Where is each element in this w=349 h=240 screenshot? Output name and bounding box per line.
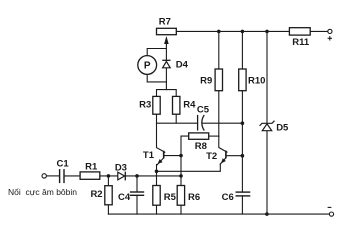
svg-text:R5: R5 xyxy=(164,192,177,203)
svg-text:D5: D5 xyxy=(276,122,289,133)
svg-text:C1: C1 xyxy=(57,158,70,169)
svg-text:R10: R10 xyxy=(248,76,265,87)
svg-text:C4: C4 xyxy=(118,192,131,203)
svg-text:R2: R2 xyxy=(90,189,102,200)
svg-text:R9: R9 xyxy=(200,76,212,87)
svg-text:R11: R11 xyxy=(292,37,310,48)
svg-text:R8: R8 xyxy=(195,141,207,152)
svg-text:R4: R4 xyxy=(183,100,196,111)
svg-text:T2: T2 xyxy=(206,151,217,162)
svg-text:P: P xyxy=(144,61,151,72)
svg-text:C5: C5 xyxy=(197,105,210,116)
svg-text:R7: R7 xyxy=(159,17,171,28)
svg-text:D3: D3 xyxy=(115,162,127,173)
svg-text:T1: T1 xyxy=(143,150,155,161)
svg-text:C6: C6 xyxy=(222,192,234,203)
svg-text:R6: R6 xyxy=(188,192,200,203)
svg-text:R1: R1 xyxy=(85,162,98,173)
svg-text:R3: R3 xyxy=(139,100,151,111)
svg-text:D4: D4 xyxy=(176,59,189,70)
svg-text:Nối cực âm bôbin: Nối cực âm bôbin xyxy=(8,187,77,197)
